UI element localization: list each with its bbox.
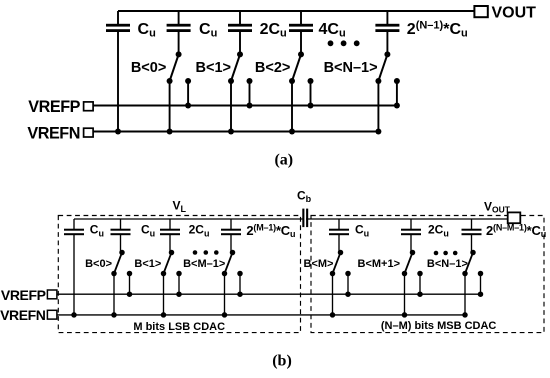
switch B&lt;N-1&gt; (b) <box>462 250 483 318</box>
switch B&lt;M&gt; (b) <box>330 250 351 318</box>
svg-text:(N–M) bits MSB CDAC: (N–M) bits MSB CDAC <box>381 320 497 332</box>
svg-text:(b): (b) <box>272 353 292 370</box>
switch B&lt;M-1&gt; (b) <box>222 250 243 318</box>
capacitor C4 value 4Cu <box>289 11 313 54</box>
svg-text:B<1>: B<1> <box>134 258 161 270</box>
switch B&lt;M+1&gt; (b) <box>402 250 423 318</box>
capacitor C1 value Cu (dummy) <box>106 11 130 135</box>
svg-text:VREFN: VREFN <box>27 125 80 143</box>
wire: top plate rail (a) <box>118 10 474 12</box>
capacitor C2 value Cu <box>167 11 191 54</box>
svg-text:B<M>: B<M> <box>304 258 334 270</box>
svg-text:B<N–1>: B<N–1> <box>324 60 378 76</box>
svg-text:VREFP: VREFP <box>28 98 80 116</box>
wire: VREFP rail (a) <box>93 105 397 107</box>
capacitor Cb (bridge) <box>302 209 308 228</box>
svg-text:B<0>: B<0> <box>131 60 166 76</box>
capacitor C12 value 2^(N-M-1)*Cu <box>462 219 482 253</box>
wire: VREFN rail (a) <box>93 131 378 133</box>
switch B&lt;0&gt; (b) <box>111 250 132 318</box>
terminal VOUT square (b) <box>508 212 521 223</box>
wire: VREFP rail (b) <box>57 293 481 295</box>
capacitor C9 value 2^(M-1)*Cu <box>221 219 241 253</box>
dashed box: (N-M) bits MSB CDAC <box>311 216 544 333</box>
wire: MSB top rail / node VOUT (b) <box>306 218 508 220</box>
terminal VREFP square (b) <box>47 290 57 299</box>
svg-text:(a): (a) <box>274 151 293 168</box>
wire: VREFN rail (b) <box>57 314 465 316</box>
svg-text:B<M–1>: B<M–1> <box>183 258 225 270</box>
svg-text:M bits LSB CDAC: M bits LSB CDAC <box>133 321 225 333</box>
capacitor C3 value 2Cu <box>228 11 252 54</box>
capacitor C7 value Cu <box>111 219 131 253</box>
ellipsis dots between C4 and C5 (a) <box>328 40 360 46</box>
terminal VOUT square <box>474 6 487 17</box>
capacitor C10 value Cu (MSB first) <box>329 219 349 253</box>
switch B&lt;0&gt; <box>167 51 192 134</box>
svg-text:VOUT: VOUT <box>492 5 537 22</box>
capacitor C11 value 2Cu <box>401 219 421 253</box>
svg-text:VREFN: VREFN <box>0 307 46 323</box>
capacitor C8 value 2Cu <box>160 219 180 253</box>
wire: LSB top rail / node VL (b) <box>74 218 302 220</box>
svg-text:B<0>: B<0> <box>85 258 112 270</box>
terminal VREFN square (a) <box>84 128 94 137</box>
svg-text:B<1>: B<1> <box>196 60 231 76</box>
terminal VREFN square (b) <box>47 310 57 319</box>
svg-text:B<M+1>: B<M+1> <box>358 258 401 270</box>
ellipsis dots between C8 and C9 (b) <box>193 250 219 255</box>
switch B&lt;1&gt; <box>228 51 253 134</box>
capacitor C5 value 2^(N-1)*Cu <box>375 11 399 54</box>
svg-text:B<2>: B<2> <box>255 60 290 76</box>
svg-text:B<N–1>: B<N–1> <box>427 258 468 270</box>
dashed box: M bits LSB CDAC <box>58 216 300 333</box>
ellipsis dots between C11 and C12 (b) <box>434 251 458 256</box>
terminal VREFP square (a) <box>84 102 94 111</box>
switch B&lt;N-1&gt; <box>375 51 400 134</box>
svg-text:VREFP: VREFP <box>1 287 46 303</box>
switch B&lt;2&gt; <box>289 51 314 134</box>
capacitor C6 value Cu (LSB dummy) <box>64 219 84 318</box>
switch B&lt;1&gt; (b) <box>161 250 182 318</box>
